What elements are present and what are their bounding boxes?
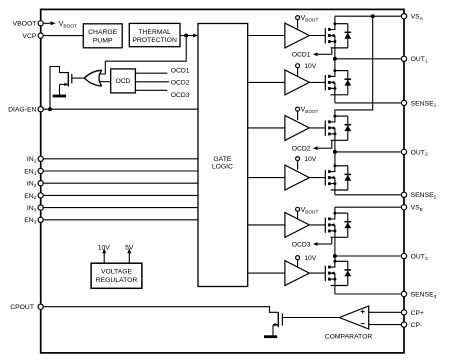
pin VSA (401, 14, 406, 19)
transistor Q6 (324, 266, 326, 281)
diode body Q3 (347, 116, 349, 140)
svg-text:OCD3: OCD3 (292, 241, 311, 248)
wire OCD3 sense tap (331, 237, 333, 244)
wire gate logic output 4 (248, 177, 285, 179)
wire EN1 to gate logic (43, 170, 198, 172)
wire DIAG-EN to gate logic (43, 108, 198, 110)
wire OCD1 sense tap (331, 48, 333, 54)
transistor Q4 (324, 170, 326, 185)
driver buffer U5 (285, 115, 309, 140)
pin EN3 (38, 217, 43, 222)
wire thermal protection output to gate logic (180, 35, 194, 37)
transistor Q3 (324, 121, 326, 136)
svg-text:10V: 10V (98, 245, 111, 252)
wire driver 2 to gate (309, 81, 325, 83)
block THERMAL PROTECTION (129, 23, 180, 46)
node OUT2 (334, 140, 336, 166)
supply tap VBOOT driver 3 (296, 107, 300, 111)
wire OCD1 output (135, 72, 167, 74)
svg-text:LOGIC: LOGIC (212, 164, 233, 171)
block GATE LOGIC (198, 24, 248, 287)
wire EN2 to gate logic (43, 194, 198, 196)
svg-text:10V: 10V (304, 156, 317, 163)
diode body Q5 (347, 213, 349, 237)
ground (264, 335, 277, 338)
diode body Q4 (347, 166, 349, 190)
pin CPOUT (38, 304, 43, 309)
diode body Q1 (347, 24, 349, 48)
wire gate logic output 6 (248, 272, 285, 274)
IC outline border (41, 9, 404, 353)
wire Q6 source to SENSE3 (334, 286, 336, 295)
arrow OCD3 (313, 242, 318, 246)
svg-text:OCD2: OCD2 (292, 146, 311, 153)
svg-text:10V: 10V (304, 63, 317, 70)
wire SENSE3 to pin (335, 293, 402, 295)
pin OUT2 (401, 149, 406, 154)
block CHARGE PUMP (83, 24, 122, 48)
pin VCP (38, 33, 43, 38)
pin OUT1 (401, 56, 406, 61)
wire IN2 to gate logic (43, 182, 198, 184)
svg-text:OCD1: OCD1 (171, 68, 190, 75)
wire gate logic output 5 (248, 224, 285, 226)
svg-text:PROTECTION: PROTECTION (132, 37, 177, 44)
ground (53, 95, 66, 98)
svg-text:GATE: GATE (213, 156, 231, 163)
svg-text:OCD2: OCD2 (171, 79, 190, 86)
svg-text:OCD1: OCD1 (292, 52, 311, 59)
node OUT1 (334, 48, 336, 71)
wire OCD2 sense tap (331, 140, 333, 148)
wire OUT2 to pin (335, 151, 402, 153)
supply tap 10V driver 4 (296, 157, 300, 161)
wire SENSE2 to pin (335, 194, 402, 196)
wire CPOUT to transistor M8 drain (43, 307, 278, 313)
supply tap 10V driver 2 (296, 64, 300, 68)
wire driver 3 to gate (309, 127, 325, 129)
svg-text:CP+: CP+ (411, 310, 424, 317)
pin IN2 (38, 181, 43, 186)
svg-text:5V: 5V (125, 245, 134, 252)
wire OCD3 output (135, 89, 167, 91)
transistor M8 charge pump switch (277, 312, 279, 327)
node thermal output junction (184, 34, 188, 38)
node OUT3 (334, 237, 336, 261)
transistor Q5 (324, 218, 326, 233)
svg-text:CP-: CP- (411, 322, 423, 329)
svg-text:THERMAL: THERMAL (138, 29, 171, 36)
driver buffer U6 (285, 165, 309, 190)
pin SENSE3 (401, 291, 406, 296)
diode body Q6 (347, 261, 349, 285)
svg-text:OCD3: OCD3 (171, 92, 190, 99)
arrow 10V output (102, 248, 106, 253)
pin EN1 (38, 168, 43, 173)
block OCD (111, 69, 136, 93)
pin VSB (401, 205, 406, 210)
driver buffer U7 (285, 212, 309, 237)
svg-text:PUMP: PUMP (93, 38, 113, 45)
svg-text:COMPARATOR: COMPARATOR (325, 334, 373, 341)
svg-text:VCP: VCP (22, 33, 36, 40)
node DIAG-EN junction (48, 107, 52, 111)
pin CP- (401, 322, 406, 327)
transistor M7 DIAG-EN open drain (67, 72, 69, 87)
pin SENSE2 (401, 192, 406, 197)
svg-text:CHARGE: CHARGE (88, 29, 118, 36)
wire 5V regulator output (128, 253, 130, 263)
wire gate logic output 3 (248, 127, 285, 129)
supply tap 10V driver 6 (296, 256, 300, 260)
node VSA branch (371, 14, 375, 18)
driver buffer U8 (285, 261, 309, 286)
wire CP+ input (369, 311, 402, 313)
wire gate logic output 2 (248, 81, 285, 83)
transistor Q2 (324, 75, 326, 90)
pin OUT3 (401, 253, 406, 258)
supply tap VBOOT driver 5 (296, 207, 300, 211)
rail VSB (335, 206, 402, 208)
wire OUT3 to pin (335, 255, 402, 257)
pin VBOOT (38, 21, 43, 26)
wire driver 5 to gate (309, 224, 325, 226)
svg-text:OCD: OCD (115, 78, 130, 85)
arrow VBOOT net (51, 21, 56, 25)
pin IN1 (38, 156, 43, 161)
wire IN1 to gate logic (43, 158, 198, 160)
pin DIAG-EN (38, 107, 43, 112)
pin IN3 (38, 205, 43, 210)
wire thermal junction down to OR gate input (99, 36, 186, 75)
wire driver 6 to gate (309, 272, 325, 274)
wire OUT1 to pin (335, 58, 402, 60)
wire Q2 source to SENSE1 (334, 95, 336, 103)
arrow OCD1 (313, 52, 318, 56)
svg-text:10V: 10V (304, 255, 317, 262)
diode body Q2 (347, 71, 349, 95)
arrow 5V output (127, 248, 131, 253)
wire 10V regulator output (103, 253, 105, 263)
pin SENSE1 (401, 100, 406, 105)
wire gate logic output 1 (248, 35, 285, 37)
wire VSA drop to second half bridge (335, 16, 373, 116)
rail VSA (335, 15, 402, 17)
svg-text:REGULATOR: REGULATOR (96, 277, 138, 284)
wire driver 1 to gate (309, 35, 325, 37)
pin EN2 (38, 193, 43, 198)
svg-text:VBOOT: VBOOT (13, 21, 37, 28)
wire OCD to OR gate input (99, 81, 111, 83)
or-gate U2 fault combine (84, 70, 102, 86)
block VOLTAGE REGULATOR (91, 263, 142, 288)
arrow OCD2 (313, 146, 318, 150)
svg-text:CPOUT: CPOUT (10, 304, 34, 311)
svg-text:VOLTAGE: VOLTAGE (101, 269, 133, 276)
arrow into gate logic (193, 34, 198, 38)
transistor Q1 (324, 28, 326, 43)
supply tap VBOOT driver 1 (296, 16, 300, 20)
wire Q4 source to SENSE2 (334, 190, 336, 195)
wire EN3 to gate logic (43, 219, 198, 221)
wire comparator output to M8 gate (282, 317, 339, 319)
driver buffer U4 (285, 70, 309, 95)
wire VBOOT pin stub (43, 22, 50, 24)
svg-text:DIAG-EN: DIAG-EN (8, 107, 36, 114)
driver buffer U3 (285, 23, 309, 48)
wire VCP to charge pump (43, 35, 83, 37)
wire CP- input (369, 324, 402, 326)
pin CP+ (401, 310, 406, 315)
comparator U8 (339, 306, 368, 329)
wire driver 4 to gate (309, 177, 325, 179)
wire SENSE1 to pin (335, 102, 402, 104)
wire OCD2 output (135, 81, 169, 83)
wire IN3 to gate logic (43, 207, 198, 209)
